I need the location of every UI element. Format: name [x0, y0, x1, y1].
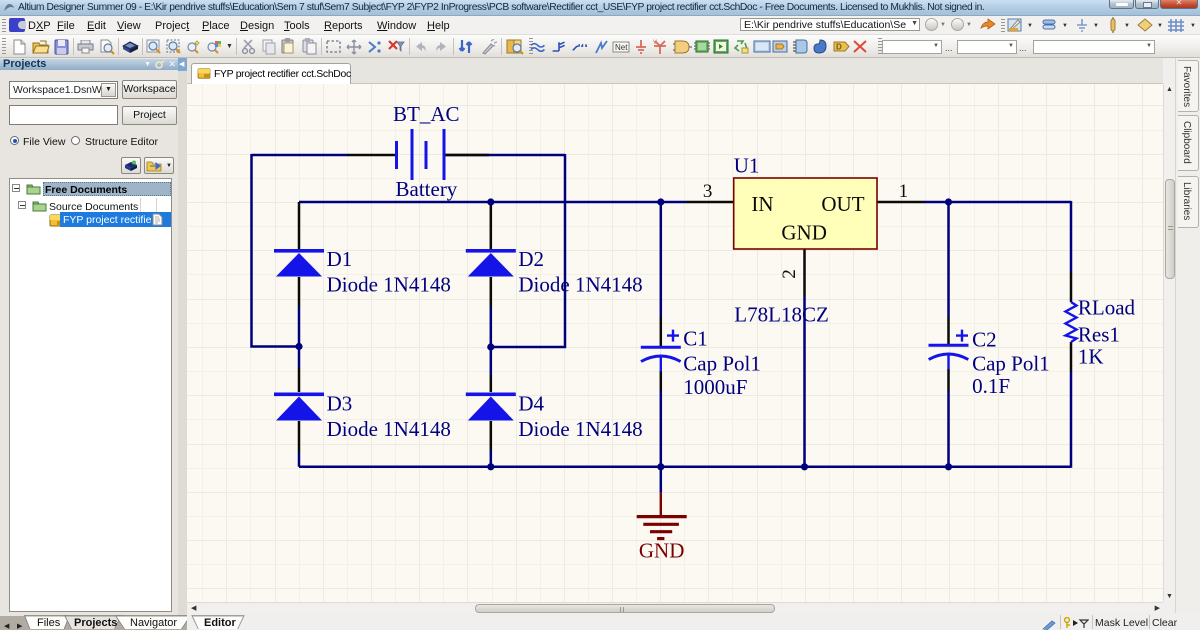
svg-text:RLoad: RLoad: [1078, 296, 1136, 320]
svg-text:Net: Net: [615, 43, 628, 52]
svg-text:Cap Pol1: Cap Pol1: [972, 352, 1050, 376]
svg-text:C1: C1: [683, 326, 708, 350]
svg-text:1: 1: [899, 181, 909, 202]
svg-text:0.1F: 0.1F: [972, 374, 1010, 398]
svg-text:Diode 1N4148: Diode 1N4148: [327, 272, 451, 296]
svg-text:1000uF: 1000uF: [683, 375, 747, 399]
svg-text:V: V: [653, 40, 657, 46]
svg-text:BT_AC: BT_AC: [393, 102, 460, 126]
svg-text:Diode 1N4148: Diode 1N4148: [518, 272, 642, 296]
svg-text:D: D: [836, 43, 842, 52]
svg-text:Diode 1N4148: Diode 1N4148: [518, 417, 642, 441]
svg-text:GND: GND: [639, 539, 685, 563]
svg-text:GND: GND: [781, 221, 827, 245]
svg-text:2: 2: [779, 269, 800, 279]
svg-text:1K: 1K: [1078, 345, 1104, 369]
svg-text:D4: D4: [518, 392, 544, 416]
svg-text:D2: D2: [518, 247, 544, 271]
svg-text:Diode 1N4148: Diode 1N4148: [327, 417, 451, 441]
svg-text:D1: D1: [327, 247, 353, 271]
svg-text:Battery: Battery: [396, 177, 458, 201]
svg-text:D3: D3: [327, 392, 353, 416]
svg-text:U1: U1: [734, 154, 760, 178]
svg-text:OUT: OUT: [821, 192, 864, 216]
svg-text:L78L18CZ: L78L18CZ: [734, 302, 829, 326]
svg-text:Res1: Res1: [1078, 323, 1120, 347]
svg-text:C2: C2: [972, 328, 997, 352]
svg-text:IN: IN: [751, 192, 773, 216]
svg-text:Cap Pol1: Cap Pol1: [683, 352, 761, 376]
svg-text:3: 3: [703, 181, 713, 202]
